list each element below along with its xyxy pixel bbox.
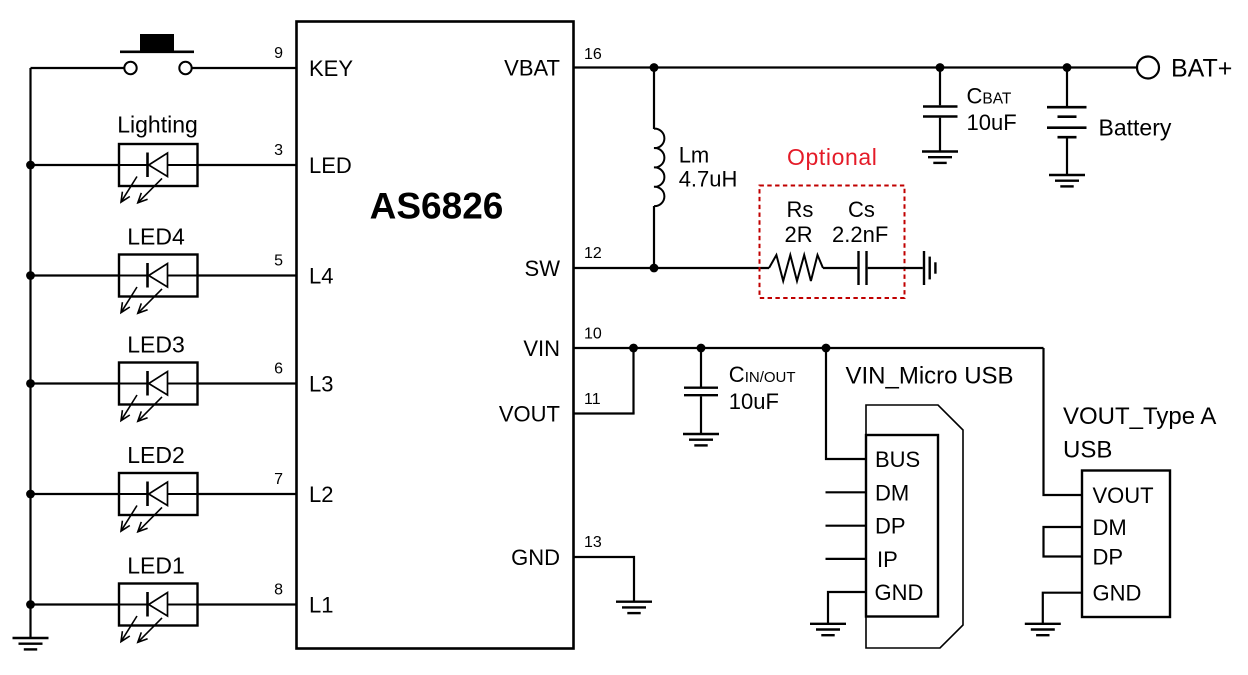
svg-text:SW: SW: [525, 256, 561, 281]
ground (left bus bottom): [13, 638, 49, 649]
ground (J1): [810, 624, 846, 635]
wire: bus to LED1: [31, 603, 120, 605]
svg-text:VBAT: VBAT: [504, 56, 560, 81]
node junction (Lm top): [650, 63, 659, 72]
node junction (CIN/OUT top): [697, 344, 706, 353]
svg-text:DP: DP: [1093, 545, 1124, 570]
svg-text:USB: USB: [1063, 437, 1112, 464]
capacitor Cs: [857, 251, 859, 285]
svg-text:4.7uH: 4.7uH: [679, 167, 738, 192]
ground (CIN/OUT): [683, 434, 719, 445]
svg-text:VOUT: VOUT: [1093, 483, 1154, 508]
wire: Cs to ground: [868, 267, 923, 269]
svg-text:DM: DM: [1093, 515, 1127, 540]
svg-text:VIN: VIN: [523, 336, 560, 361]
wire: J2 DM-DP short: [1044, 527, 1083, 557]
wire: CIN/OUT to ground: [700, 396, 702, 434]
node junction on bus (LED4): [26, 271, 35, 280]
wire: LED2 to pin 7: [198, 493, 297, 495]
svg-text:8: 8: [274, 582, 283, 599]
wire: J2 GND to ground: [1043, 593, 1082, 623]
node junction on bus (LED1): [26, 600, 35, 609]
wire: SW to snubber: [574, 267, 770, 269]
pin stub DP (J1): [826, 525, 867, 527]
svg-text:IP: IP: [877, 547, 898, 572]
svg-text:10uF: 10uF: [967, 110, 1017, 135]
connector J1 Micro USB pin block: [866, 435, 938, 617]
node junction (SW / Lm bottom): [650, 264, 659, 273]
node junction (Battery top): [1063, 63, 1072, 72]
wire: VOUT loop vertical: [632, 348, 634, 414]
svg-text:LED2: LED2: [127, 442, 185, 468]
svg-text:Lm: Lm: [679, 143, 710, 168]
wire: VBUS drop to BUS pin: [826, 348, 866, 459]
svg-text:GND: GND: [511, 545, 560, 570]
node junction on bus (LED2): [26, 490, 35, 499]
battery BT1 wire down: [1066, 68, 1068, 107]
svg-text:L2: L2: [309, 482, 333, 507]
wire: button to KEY pin 9: [192, 67, 297, 69]
node junction (VOUT tie): [629, 344, 638, 353]
wire: LED Lighting to pin 3: [198, 164, 297, 166]
node junction on bus (Lighting): [26, 161, 35, 170]
svg-text:KEY: KEY: [309, 56, 353, 81]
wire: bus to LED4: [31, 274, 120, 276]
inductor Lm: [654, 129, 664, 206]
connector J1 Micro USB shell: [866, 405, 963, 648]
battery BT1: [1047, 107, 1087, 137]
capacitor CBAT: [923, 105, 958, 107]
wire: VBAT net to BAT+: [574, 66, 1138, 68]
wire: VIN net to J2 VOUT pin: [1044, 348, 1083, 495]
wire: VIN net horizontal: [574, 347, 1044, 349]
svg-text:GND: GND: [1093, 581, 1142, 606]
push button SW (cap): [140, 34, 174, 51]
node junction (VBUS drop): [822, 344, 831, 353]
LED LED3: [119, 363, 198, 422]
LED LED2: [119, 473, 198, 532]
svg-text:10: 10: [584, 326, 602, 343]
svg-text:2R: 2R: [785, 222, 813, 247]
resistor Rs: [769, 255, 823, 281]
ground (CBAT): [922, 152, 958, 163]
wire: GND pin to ground: [574, 557, 635, 601]
svg-text:VOUT_Type A: VOUT_Type A: [1063, 403, 1216, 430]
ground (battery): [1049, 175, 1085, 186]
push button SW (left contact): [124, 62, 136, 74]
capacitor CBAT wire down: [939, 68, 941, 106]
LED LED1: [119, 584, 198, 643]
svg-text:9: 9: [274, 45, 283, 62]
svg-text:BAT+: BAT+: [1171, 55, 1232, 83]
svg-text:VIN_Micro USB: VIN_Micro USB: [846, 363, 1014, 390]
LED LED4: [119, 255, 198, 314]
wire: LED3 to pin 6: [198, 382, 297, 384]
terminal BAT+: [1137, 57, 1159, 79]
svg-text:3: 3: [274, 142, 283, 159]
svg-text:10uF: 10uF: [729, 389, 779, 414]
node junction (CBAT top): [936, 63, 945, 72]
svg-text:L1: L1: [309, 593, 333, 618]
svg-text:16: 16: [584, 46, 602, 63]
svg-text:L4: L4: [309, 264, 333, 289]
svg-text:LED: LED: [309, 153, 352, 178]
svg-text:13: 13: [584, 534, 602, 551]
wire: battery to ground: [1066, 138, 1068, 175]
svg-text:L3: L3: [309, 372, 333, 397]
svg-text:VOUT: VOUT: [499, 402, 560, 427]
pin stub IP (J1): [826, 558, 867, 560]
capacitor CIN/OUT wire down: [700, 348, 702, 387]
wire: Rs to Cs: [823, 267, 857, 269]
wire: VBAT node down to Lm: [653, 68, 655, 130]
node junction on bus (LED3): [26, 379, 35, 388]
ground (IC GND): [616, 602, 652, 613]
wire: LED1 to pin 8: [198, 603, 297, 605]
svg-text:12: 12: [584, 245, 602, 262]
push button SW (actuator bar): [120, 50, 194, 53]
connector J2 Type A body: [1082, 471, 1170, 618]
IC U1 AS6826 body: [297, 22, 574, 649]
svg-text:5: 5: [274, 253, 283, 270]
wire: bus to LED3: [31, 382, 120, 384]
svg-text:GND: GND: [875, 580, 924, 605]
wire: left bus vertical: [29, 68, 31, 638]
svg-text:LED4: LED4: [127, 224, 185, 250]
ground (snubber, rotated): [924, 251, 935, 285]
svg-text:11: 11: [584, 391, 601, 408]
svg-text:2.2nF: 2.2nF: [832, 222, 888, 247]
wire: bus to push button: [31, 67, 125, 69]
svg-text:Lighting: Lighting: [117, 112, 198, 138]
ground (J2): [1025, 624, 1061, 635]
optional snubber dashed box: [760, 186, 905, 299]
wire: CBAT to ground: [939, 118, 941, 152]
svg-text:Cs: Cs: [848, 197, 875, 222]
svg-text:7: 7: [274, 471, 283, 488]
wire: LED4 to pin 5: [198, 274, 297, 276]
svg-text:Rs: Rs: [787, 197, 814, 222]
wire: bus to LED Lighting: [31, 164, 120, 166]
svg-text:AS6826: AS6826: [370, 186, 504, 227]
push button SW (right contact): [179, 62, 191, 74]
svg-text:DM: DM: [875, 480, 909, 505]
svg-text:DP: DP: [875, 514, 906, 539]
LED "Lighting": [119, 144, 198, 203]
pin stub DM (J1): [826, 491, 867, 493]
svg-text:6: 6: [274, 361, 283, 378]
wire: Lm to SW node: [653, 206, 655, 268]
svg-text:LED1: LED1: [127, 553, 185, 579]
capacitor CIN/OUT: [684, 387, 718, 389]
svg-text:LED3: LED3: [127, 332, 185, 358]
svg-text:BUS: BUS: [875, 447, 920, 472]
wire: J1 GND to ground: [828, 592, 866, 623]
svg-text:Optional: Optional: [787, 144, 877, 170]
svg-text:Battery: Battery: [1099, 115, 1172, 141]
wire: bus to LED2: [31, 493, 120, 495]
wire: VOUT pin to loop: [574, 412, 635, 414]
